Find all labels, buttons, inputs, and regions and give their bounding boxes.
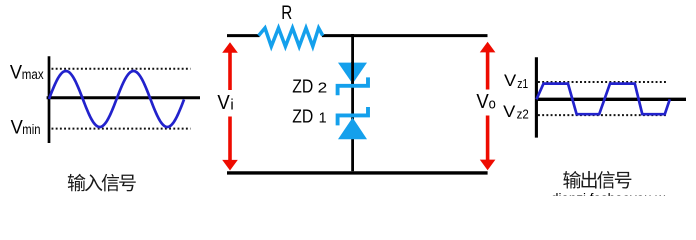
output waveform vertical axis bbox=[535, 57, 538, 137]
label input-signal 输入信号 bbox=[68, 174, 86, 192]
input Vmax dotted level line bbox=[52, 68, 191, 70]
wire over ZD2 bbox=[351, 62, 354, 84]
zener diode ZD2 cathode bar bbox=[338, 77, 368, 95]
svg-text:o: o bbox=[489, 97, 496, 113]
svg-text:V: V bbox=[503, 102, 516, 121]
input Vmin dotted level line bbox=[52, 128, 191, 130]
svg-text:z1: z1 bbox=[517, 76, 528, 91]
output clipped waveform bbox=[537, 84, 670, 115]
input waveform horizontal axis bbox=[47, 96, 200, 99]
input sine wave bbox=[49, 71, 184, 127]
middle branch wire bbox=[351, 34, 354, 171]
Vi double arrow bbox=[228, 49, 232, 163]
svg-text:V: V bbox=[504, 71, 517, 90]
zener diode ZD1 triangle bbox=[338, 118, 367, 140]
svg-text:i: i bbox=[230, 97, 233, 114]
svg-text:V: V bbox=[217, 92, 230, 114]
Vo double arrow bbox=[486, 49, 490, 163]
svg-text:V: V bbox=[476, 91, 489, 113]
svg-text:ZD: ZD bbox=[292, 107, 313, 127]
label output-signal 输出信号 bbox=[563, 171, 581, 189]
output Vz1 dotted level line bbox=[538, 81, 668, 83]
svg-text:V: V bbox=[10, 61, 22, 83]
svg-text:min: min bbox=[22, 122, 40, 138]
wire: top right segment (resistor to node Vo+) bbox=[322, 34, 488, 37]
svg-text:V: V bbox=[11, 117, 23, 139]
svg-text:z2: z2 bbox=[517, 107, 529, 122]
wire: top left segment (node Vi+ to resistor) bbox=[227, 34, 260, 37]
circuit bottom wire bbox=[227, 171, 488, 174]
input waveform vertical axis bbox=[48, 56, 51, 143]
svg-text:dianzi fashaoyou w: dianzi fashaoyou w bbox=[551, 191, 666, 197]
resistor R zigzag bbox=[259, 28, 323, 46]
zener diode ZD1 cathode bar bbox=[338, 107, 368, 125]
svg-text:ZD: ZD bbox=[292, 77, 313, 97]
svg-text:2: 2 bbox=[318, 80, 328, 97]
svg-text:R: R bbox=[281, 2, 292, 24]
output waveform horizontal axis bbox=[535, 98, 686, 101]
zener diode ZD2 triangle bbox=[338, 63, 367, 84]
svg-text:max: max bbox=[22, 67, 44, 83]
output Vz2 dotted level line bbox=[538, 114, 667, 116]
svg-text:1: 1 bbox=[319, 110, 327, 127]
